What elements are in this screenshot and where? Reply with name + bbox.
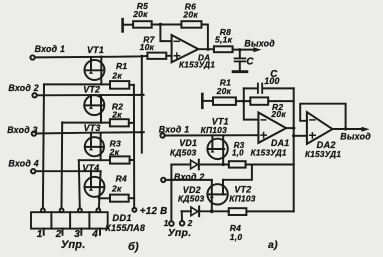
resistor R5 20k [133,21,152,28]
terminal input 3 [32,131,36,135]
node DA1 output junction [292,126,295,129]
op-amp DA K153UD1 [172,35,199,62]
wire junction to minus input [160,25,171,42]
wire R4 row [99,197,110,199]
resistor R1 2k [110,81,129,89]
ground bar at R5 left [121,19,124,31]
wire bar to R5 [124,24,134,26]
node capacitor junction on output [238,48,241,51]
wire gate bus V3 from DD1 output 3 [79,160,80,208]
svg-text:К153УД1: К153УД1 [179,60,215,69]
svg-text:VT1: VT1 [87,45,104,55]
diode VD1 KD503 [191,160,198,169]
ground bar under capacitor C [233,70,247,73]
resistor R8 5.1k [214,46,233,52]
svg-text:КД503: КД503 [178,194,205,204]
resistor R6 20k [181,21,201,28]
node DA2 feedback junction [344,127,347,130]
inverter bubble DD1 out1 [41,208,45,212]
transistor VT1 KP103 right circuit [207,139,227,159]
svg-text:VT3: VT3 [84,123,101,133]
wire VD1 anode row [171,164,189,166]
wire VD2 anode row [182,210,191,212]
DD1 control pin 2 [62,229,64,235]
wire bus to DA2 plus input [294,135,307,137]
terminal control 1 [169,221,174,226]
DD1 control pin 4 [99,229,101,235]
wire feedback vertical bus right circuit [293,88,295,211]
wire control 2 vertical to VD2 [181,211,183,221]
node R6 feedback junction on output [206,48,209,51]
svg-text:1: 1 [37,229,43,240]
wire R1 to R2 row with junction [236,100,250,102]
node input2 row to bus junction [140,93,143,96]
resistor R2 2k [110,119,129,126]
svg-text:КД503: КД503 [170,147,197,157]
svg-text:КП103: КП103 [229,193,255,203]
svg-text:VT2: VT2 [83,85,100,95]
svg-text:DD1: DD1 [112,213,131,223]
wire input 4 row [35,170,100,172]
wire DA2 output [333,128,364,130]
DD1 cell divider 3 [88,212,90,228]
transistor VT3 [85,137,104,156]
terminal input 4 [31,169,35,173]
wire gate bus V1 from DD1 output 1 [43,84,44,208]
op-amp DA2 K153UD1 [307,112,333,144]
svg-text:Выход: Выход [244,39,275,49]
svg-text:2к: 2к [109,147,120,157]
svg-text:КП103: КП103 [201,125,227,135]
wire R4 right to chain bus [129,197,134,199]
terminal control 2 [180,221,185,226]
svg-text:R4: R4 [116,174,127,184]
DD1 cell divider 2 [69,212,71,228]
resistor R7 10k [147,53,166,59]
resistor R4 1.0 right circuit [229,208,247,215]
svg-text:Вход 1: Вход 1 [159,124,190,134]
node junction R1 R2 C [242,100,245,103]
diode VD2 KD503 [191,207,198,216]
terminal input 2 right circuit [161,178,165,182]
wire input1 right to DA1 plus [165,134,259,136]
svg-text:5,1к: 5,1к [215,35,233,45]
svg-text:К153УД1: К153УД1 [305,150,341,159]
node DA2 plus junction [292,134,295,137]
arrow output right circuit [361,127,369,132]
wire control 1 vertical to VD1 [170,165,172,222]
transistor VT4 [85,177,105,197]
svg-text:Вход 2: Вход 2 [8,83,39,93]
terminal input 1 right circuit [160,133,164,137]
inverter bubble DD1 out4 [96,208,100,212]
node VT2 source junction [210,209,214,213]
transistor VT2 [84,95,104,115]
terminal input 1 [30,55,34,59]
svg-text:2к: 2к [111,70,122,80]
wire R3 right to chain bus [130,159,134,161]
svg-text:VT4: VT4 [82,163,99,173]
svg-text:100: 100 [264,76,279,86]
wire VD2 cathode to R4 [199,210,229,212]
svg-text:20к: 20к [216,86,232,96]
wire R5 to R6 with junction [152,24,182,26]
resistor R2 20k right circuit [250,97,268,104]
arrow output left circuit [253,47,261,52]
svg-text:Упр.: Упр. [168,227,192,239]
svg-text:20к: 20к [132,9,148,19]
resistor R4 2k [110,195,129,202]
svg-text:4: 4 [91,229,98,240]
node bus top junction [140,55,143,58]
wire R3 right to feedback bus [246,164,294,166]
svg-text:1,0: 1,0 [232,149,244,158]
wire R1 right jog to chain bus [129,84,134,86]
wire R4 right to feedback bus corner [246,210,293,212]
IC DD1 K155LA8 box [31,212,108,228]
svg-text:Выход: Выход [340,132,371,142]
resistor R3 1.0 right circuit [229,161,246,167]
wire R7 to op-amp plus input [166,55,171,57]
svg-text:+12 В: +12 В [140,206,168,217]
wire R3 row [79,159,110,161]
svg-text:10к: 10к [140,42,155,52]
capacitor C 100 [244,87,257,89]
svg-text:а): а) [268,239,278,251]
wire VT2 source to R2 [62,122,110,124]
node crossing junction [170,178,173,181]
svg-text:К153УД1: К153УД1 [251,148,287,157]
svg-text:1,0: 1,0 [230,232,243,242]
DD1 control pin 1 [43,229,45,235]
wire gate bus V2 from DD1 output 2 [61,122,64,208]
capacitor C left circuit [239,50,241,58]
terminal +12V [132,208,136,212]
svg-text:Вход 4: Вход 4 [8,159,39,169]
node R5 R6 junction [159,23,162,26]
svg-text:20к: 20к [182,9,198,19]
wire VT2 drain jog [223,165,252,180]
node input3 row to bus junction [140,131,143,134]
wire VT1 source row to R1 [44,83,110,85]
DD1 cell divider 1 [50,212,52,228]
svg-text:C: C [246,56,254,67]
wire DA output [198,48,214,50]
DD1 control pin 3 [80,229,82,235]
wire VD1 cathode to R3 [200,164,229,166]
transistor VT1 [85,60,105,80]
svg-text:К155ЛА8: К155ЛА8 [105,223,145,233]
wire input 1 row to summing bus and R7 [35,56,148,58]
wire input 3 row [36,132,144,133]
svg-text:Упр.: Упр. [61,239,86,251]
svg-text:2к: 2к [111,110,122,120]
svg-text:Вход 1: Вход 1 [35,44,66,54]
wire input2 right to control vertical [165,179,212,181]
wire DA1 output to bus [286,127,294,129]
wire R2 right to chain bus [129,122,134,124]
wire chain bus v1 down to +12V terminal [133,85,135,208]
wire summing bus vertical [141,56,143,152]
svg-text:б): б) [128,241,139,253]
wire input 2 row [37,94,144,96]
wire R2 right to feedback vertical [268,100,294,102]
svg-text:Вход 2: Вход 2 [174,172,205,182]
op-amp DA1 K153UD1 [258,113,286,143]
terminal input 2 [32,93,36,97]
wire junction up to capacitor C100 branch [244,88,259,119]
wire R6 right down to output [202,25,208,50]
inverter bubble DD1 out3 [78,208,82,212]
svg-text:2к: 2к [111,184,122,194]
transistor VT2 KP103 right circuit [207,184,227,204]
node VT1 source junction [222,163,225,166]
resistor R3 2k [110,156,130,163]
svg-text:Вход 3: Вход 3 [7,125,38,135]
svg-text:20к: 20к [270,109,286,119]
wire bar to R1 [203,100,213,102]
terminal bar at R1 right circuit [201,94,204,108]
inverter bubble DD1 out2 [60,208,64,212]
wire DA2 feedback loop [300,104,345,129]
svg-text:DA2: DA2 [317,140,337,150]
svg-text:DA1: DA1 [271,138,289,148]
resistor R1 20k right circuit [213,97,236,105]
wire R8 to output arrow [233,49,256,51]
